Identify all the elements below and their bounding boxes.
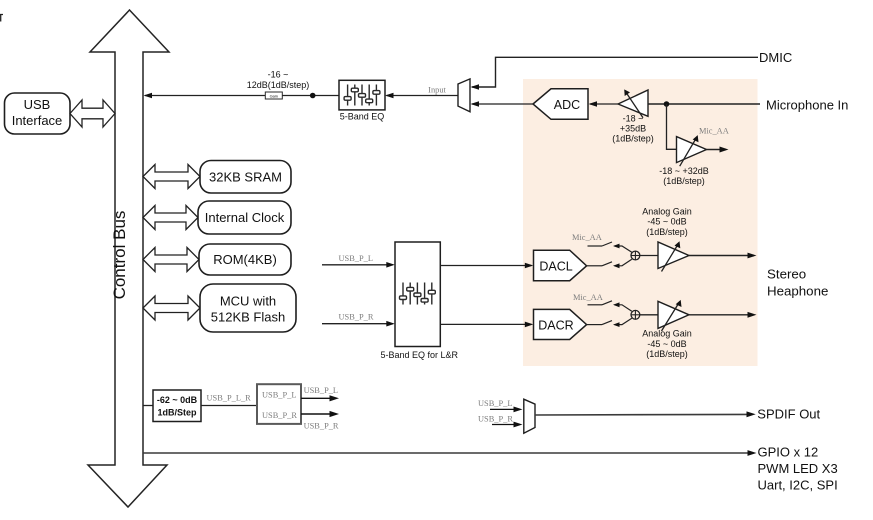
svg-text:512KB Flash: 512KB Flash — [211, 310, 285, 325]
block -62 ~ 0dB 1dB/Step — [153, 390, 201, 422]
svg-text:-45 ~ 0dB: -45 ~ 0dB — [647, 217, 686, 227]
wire: junction down to Mic_AA amp — [667, 104, 677, 149]
svg-text:(1dB/step): (1dB/step) — [646, 227, 688, 237]
svg-text:SPDIF Out: SPDIF Out — [757, 407, 820, 422]
corner mark (cropped glyph at left edge) — [0, 15, 3, 22]
SPDIF input wire L — [490, 408, 519, 410]
svg-text:12dB(1dB/step): 12dB(1dB/step) — [247, 80, 310, 90]
block ROM(4KB) — [199, 244, 291, 275]
svg-text:GPIO x 12: GPIO x 12 — [758, 445, 819, 460]
svg-text:USB: USB — [24, 97, 51, 112]
svg-text:Input: Input — [428, 86, 446, 95]
wire summer L to amp — [640, 255, 658, 257]
SPDIF mux (trapezoid) — [524, 399, 535, 433]
svg-text:DACL: DACL — [539, 260, 572, 274]
double arrow bus to MCU — [143, 296, 200, 320]
svg-text:(1dB/step): (1dB/step) — [612, 133, 654, 143]
wire: gain box to EQ — [282, 95, 339, 97]
block 5-Band EQ for L&R — [395, 242, 440, 347]
control bus vertical double arrow — [88, 10, 169, 507]
svg-text:5-Band EQ for L&R: 5-Band EQ for L&R — [381, 350, 459, 360]
svg-text:-16 ~: -16 ~ — [268, 70, 289, 80]
block 32KB SRAM — [200, 161, 291, 194]
Microphone In wire — [648, 103, 760, 105]
svg-text:Gain: Gain — [270, 93, 278, 98]
analog gain amp R — [658, 301, 689, 328]
svg-text:USB_P_R: USB_P_R — [262, 411, 297, 420]
switch: DACL into L summer — [587, 259, 632, 266]
output wire L — [689, 255, 754, 257]
wire: input mux to EQ — [387, 95, 459, 97]
svg-text:+35dB: +35dB — [620, 123, 646, 133]
svg-text:Internal Clock: Internal Clock — [205, 210, 285, 225]
svg-text:Mic_AA: Mic_AA — [572, 233, 602, 242]
svg-text:USB_P_R: USB_P_R — [304, 422, 339, 431]
svg-text:PWM LED X3: PWM LED X3 — [758, 461, 838, 476]
wire: ADC to input mux — [472, 103, 533, 105]
double arrow USB Interface to bus — [70, 100, 115, 127]
double arrow bus to ROM — [143, 248, 199, 272]
svg-text:-45 ~ 0dB: -45 ~ 0dB — [647, 339, 686, 349]
Mic_AA monitor amplifier (-18 ~ +32dB) — [677, 137, 707, 163]
svg-text:-18 ~ +32dB: -18 ~ +32dB — [659, 166, 709, 176]
mic PGA amplifier (-18 ~ +35dB) — [618, 90, 648, 116]
input mux (trapezoid) — [458, 79, 470, 112]
record gain element box — [265, 92, 282, 99]
svg-text:Heaphone: Heaphone — [767, 283, 828, 298]
wire: bus to -62 box — [143, 405, 153, 407]
switch: DACR into R summer — [587, 318, 632, 324]
GPIO wire — [143, 452, 752, 454]
block 5-Band EQ — [339, 80, 385, 110]
wire USB_P_R into EQ L&R — [322, 323, 393, 325]
svg-text:Analog Gain: Analog Gain — [642, 328, 692, 338]
wire: -62 box to splitter — [201, 405, 257, 407]
svg-text:Analog Gain: Analog Gain — [642, 206, 692, 216]
svg-text:-18 ~: -18 ~ — [623, 113, 644, 123]
block ADC — [533, 89, 588, 120]
double arrow bus to 32KB SRAM — [143, 165, 200, 189]
svg-text:(1dB/step): (1dB/step) — [663, 176, 705, 186]
svg-text:5-Band EQ: 5-Band EQ — [340, 112, 385, 122]
wire summer R to amp — [640, 314, 658, 316]
analog gain amp L — [658, 242, 689, 269]
splitter output wire R — [301, 413, 336, 415]
svg-text:ROM(4KB): ROM(4KB) — [213, 252, 277, 267]
svg-text:Mic_AA: Mic_AA — [699, 127, 729, 136]
double arrow bus to Internal Clock — [143, 206, 198, 230]
svg-text:Uart, I2C, SPI: Uart, I2C, SPI — [758, 477, 838, 492]
svg-text:USB_P_L: USB_P_L — [339, 254, 373, 263]
block Internal Clock — [198, 201, 291, 234]
svg-text:USB_P_L: USB_P_L — [304, 386, 338, 395]
USB splitter box — [257, 384, 301, 424]
Mic_AA amp output arrow — [707, 149, 727, 151]
svg-text:Interface: Interface — [12, 113, 63, 128]
EQ sliders — [344, 85, 380, 106]
svg-text:Microphone In: Microphone In — [766, 98, 848, 113]
svg-text:MCU with: MCU with — [220, 294, 276, 309]
peach analog region — [523, 79, 758, 366]
switch: Mic_AA into L summer — [588, 242, 632, 252]
junction dot mic — [664, 101, 670, 107]
svg-text:(1dB/step): (1dB/step) — [646, 349, 688, 359]
svg-text:-62 ~ 0dB: -62 ~ 0dB — [157, 395, 198, 405]
EQ L&R sliders — [400, 283, 436, 305]
svg-text:USB_P_R: USB_P_R — [339, 313, 374, 322]
wire: gain stage to bus (arrow into bus) — [145, 95, 265, 97]
svg-text:USB_P_L_R: USB_P_L_R — [207, 393, 252, 402]
svg-text:1dB/Step: 1dB/Step — [157, 407, 197, 417]
SPDIF output wire — [535, 413, 752, 416]
svg-text:DMIC: DMIC — [759, 50, 792, 65]
svg-text:USB_P_L: USB_P_L — [478, 399, 512, 408]
block MCU with 512KB Flash — [200, 284, 296, 332]
summing node R — [631, 310, 640, 319]
block USB Interface — [5, 93, 71, 134]
svg-text:DACR: DACR — [538, 318, 573, 332]
block DACR — [534, 309, 587, 339]
wire: EQ L&R to DACR — [440, 323, 531, 325]
wire: EQ L&R to DACL — [440, 265, 531, 267]
wire: mic amp to ADC — [590, 103, 618, 105]
splitter output wire L — [301, 397, 336, 399]
SPDIF input wire R — [492, 424, 519, 426]
output wire R — [689, 314, 754, 316]
svg-text:ADC: ADC — [554, 98, 580, 112]
block DACL — [534, 250, 587, 281]
summing node L — [631, 251, 640, 260]
junction dot — [310, 93, 316, 99]
DMIC wire — [472, 57, 758, 87]
svg-text:32KB SRAM: 32KB SRAM — [209, 170, 282, 185]
svg-text:Stereo: Stereo — [767, 266, 806, 281]
svg-text:USB_P_R: USB_P_R — [478, 415, 513, 424]
switch: Mic_AA into R summer — [588, 301, 632, 311]
svg-text:Control Bus: Control Bus — [110, 211, 129, 300]
wire USB_P_L into EQ L&R — [322, 264, 393, 266]
svg-text:USB_P_L: USB_P_L — [262, 390, 296, 399]
svg-text:Mic_AA: Mic_AA — [573, 293, 603, 302]
